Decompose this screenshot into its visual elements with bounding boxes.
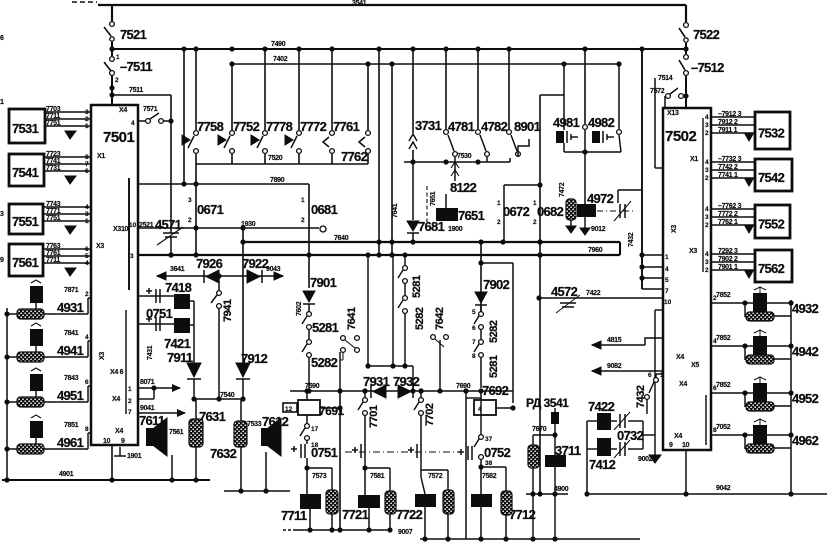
svg-text:7711: 7711 <box>281 508 307 523</box>
svg-text:7571: 7571 <box>143 106 158 113</box>
svg-text:6: 6 <box>0 35 4 42</box>
svg-text:4: 4 <box>705 251 709 258</box>
svg-text:0682: 0682 <box>537 204 564 219</box>
svg-text:7632: 7632 <box>210 446 237 461</box>
connector 12 box <box>283 403 297 412</box>
svg-text:7520: 7520 <box>268 155 283 162</box>
svg-text:7752: 7752 <box>233 119 260 134</box>
svg-text:7651: 7651 <box>458 208 485 223</box>
wire IC 7502 aux vertical <box>654 310 656 435</box>
box 7541 <box>9 154 44 186</box>
connector 0671 <box>195 164 197 255</box>
svg-text:37: 37 <box>485 436 493 443</box>
svg-text:5: 5 <box>85 253 89 260</box>
svg-text:4572: 4572 <box>551 284 578 299</box>
svg-text:0732: 0732 <box>617 428 644 443</box>
wire net 1930 <box>138 227 319 229</box>
wire 7511 down to IC 7501 <box>111 76 113 105</box>
wire dashed feedback <box>426 186 428 222</box>
svg-text:7741 1: 7741 1 <box>718 172 738 179</box>
svg-text:7532: 7532 <box>758 126 785 141</box>
ground 9002 <box>654 435 656 455</box>
box 7562 <box>755 250 792 282</box>
svg-text:7711: 7711 <box>46 257 60 264</box>
switch 7772 <box>298 49 300 130</box>
ground under capacitor 4972 <box>584 217 586 228</box>
diode 7926 <box>206 270 219 283</box>
svg-text:7841: 7841 <box>64 330 79 337</box>
wire bottom ground bus middle <box>420 538 640 540</box>
wire vertical x392 <box>391 64 393 255</box>
svg-text:7642: 7642 <box>434 307 446 330</box>
svg-text:7743: 7743 <box>46 201 61 208</box>
wire right ladder bus x791 <box>790 300 792 494</box>
svg-text:10: 10 <box>682 442 690 449</box>
wire node to 7571 branch <box>112 94 171 96</box>
svg-text:7901 1: 7901 1 <box>718 264 738 271</box>
svg-text:9012: 9012 <box>591 226 606 233</box>
wire dash-dot control line <box>345 451 462 453</box>
wire switch row bottom bus <box>196 163 368 165</box>
svg-text:7960: 7960 <box>588 247 603 254</box>
resistor-capacitor cell 4951 <box>7 401 88 403</box>
svg-text:7582: 7582 <box>482 473 497 480</box>
wire bottom bus right <box>585 493 827 495</box>
svg-text:7771: 7771 <box>46 208 61 215</box>
svg-text:7902: 7902 <box>483 277 510 292</box>
svg-text:7723: 7723 <box>46 151 61 158</box>
wire bus rail B y49 <box>111 48 686 50</box>
svg-text:7531: 7531 <box>12 121 39 136</box>
svg-text:0752: 0752 <box>484 445 511 460</box>
svg-text:7703: 7703 <box>46 106 61 113</box>
wire net 7930 <box>290 390 513 392</box>
svg-text:1: 1 <box>665 254 669 261</box>
wire right main vertical drop <box>685 5 687 22</box>
switch 7758 <box>195 49 197 130</box>
svg-text:7542: 7542 <box>758 170 785 185</box>
switch 0752 <box>465 391 467 539</box>
wire box top <box>481 262 513 264</box>
switch 7512 <box>684 55 689 60</box>
svg-text:7641: 7641 <box>392 203 399 218</box>
svg-text:7561: 7561 <box>169 429 184 436</box>
svg-text:2: 2 <box>497 219 501 226</box>
svg-text:4900: 4900 <box>554 486 569 493</box>
switch 5281 <box>479 340 484 345</box>
svg-text:10: 10 <box>129 222 137 229</box>
svg-text:5: 5 <box>472 309 476 316</box>
svg-text:3: 3 <box>0 211 4 218</box>
wire row to box 7552 <box>711 224 755 226</box>
node wedge below 7551 <box>65 226 76 234</box>
svg-text:4781: 4781 <box>448 119 475 134</box>
svg-text:4782: 4782 <box>481 119 508 134</box>
svg-text:7590: 7590 <box>305 383 320 390</box>
svg-text:4: 4 <box>85 334 89 341</box>
svg-text:7530: 7530 <box>457 153 472 160</box>
svg-text:9002: 9002 <box>638 456 653 463</box>
svg-text:7521: 7521 <box>120 27 147 42</box>
ground under resistor <box>570 220 572 226</box>
wire vertical x393 lower <box>392 255 394 366</box>
svg-text:7640: 7640 <box>334 235 349 242</box>
node diode mark 7552 <box>745 226 753 233</box>
wire row to box 7562 <box>711 269 755 271</box>
wire 7531 row 2 <box>45 118 91 120</box>
svg-text:7472: 7472 <box>559 182 566 197</box>
wire down to 4972 <box>584 152 586 204</box>
capacitor 0732 upper symbol <box>611 420 617 422</box>
node hook end of net 1930 <box>320 226 326 232</box>
svg-text:5281: 5281 <box>488 355 500 378</box>
svg-text:7422: 7422 <box>586 290 601 297</box>
wire 7418 block to diode 7911 <box>190 300 194 302</box>
svg-text:7901: 7901 <box>310 275 337 290</box>
svg-text:7926: 7926 <box>196 256 223 271</box>
svg-text:7602: 7602 <box>296 301 303 316</box>
wire arrow input 9082 <box>592 370 663 372</box>
wire stub rows to 7418 block <box>138 295 174 297</box>
svg-text:7741: 7741 <box>46 158 61 165</box>
wire row to box 7562 <box>711 261 755 263</box>
svg-text:7922: 7922 <box>242 256 269 271</box>
wire dash-dot to coupling <box>597 210 636 212</box>
svg-text:9082: 9082 <box>607 363 622 370</box>
resistor 4972 hatched <box>566 199 576 220</box>
switch 7511 <box>110 57 115 62</box>
capacitor 7412 <box>597 438 611 456</box>
svg-text:9: 9 <box>669 442 673 449</box>
svg-text:3: 3 <box>705 167 709 174</box>
connector 0672 frame <box>504 184 540 186</box>
capacitor coupling symbol <box>619 204 621 218</box>
svg-text:7501: 7501 <box>103 129 135 146</box>
svg-text:12: 12 <box>285 406 293 413</box>
resistor 7711 partner <box>307 467 332 469</box>
resistor-capacitor cell 4932 <box>711 302 791 304</box>
svg-text:7852: 7852 <box>716 292 731 299</box>
svg-text:X13: X13 <box>667 110 679 117</box>
svg-text:7852: 7852 <box>716 335 731 342</box>
switch 5282 left <box>307 340 312 345</box>
svg-text:3: 3 <box>188 197 192 204</box>
wire 3731 group bottom <box>404 161 510 163</box>
svg-text:2: 2 <box>705 175 709 182</box>
box 7532 <box>755 112 790 149</box>
svg-text:7490: 7490 <box>271 41 286 48</box>
IC 7501 <box>91 105 138 445</box>
svg-text:X310: X310 <box>113 226 129 233</box>
wire row to box 7562 <box>711 253 755 255</box>
svg-text:7412: 7412 <box>589 457 616 472</box>
svg-text:1: 1 <box>497 200 501 207</box>
svg-text:7712: 7712 <box>509 507 536 522</box>
wire net 4572 to IC 7502 <box>539 297 663 299</box>
svg-text:4: 4 <box>705 206 709 213</box>
svg-text:2: 2 <box>85 291 89 298</box>
svg-text:7912 2: 7912 2 <box>718 119 738 126</box>
svg-text:7701: 7701 <box>368 405 380 428</box>
svg-text:38: 38 <box>485 460 493 467</box>
switch 7761 <box>331 49 333 130</box>
svg-text:7651: 7651 <box>430 191 437 206</box>
wire vertical x340 <box>339 391 341 530</box>
svg-text:3: 3 <box>705 259 709 266</box>
wire vertical x171 <box>170 95 172 217</box>
svg-text:3: 3 <box>705 214 709 221</box>
connector 0681 <box>308 184 310 288</box>
wire 7531 row 3 <box>45 125 91 127</box>
node wedge below 7541 <box>65 176 76 184</box>
svg-text:4952: 4952 <box>792 391 819 406</box>
svg-text:1901: 1901 <box>127 453 142 460</box>
svg-text:X1: X1 <box>690 156 698 163</box>
svg-text:9: 9 <box>121 438 125 445</box>
wire 7541 row 2 <box>44 163 91 165</box>
node wedge below 7561 <box>65 268 76 276</box>
svg-text:7932: 7932 <box>393 374 420 389</box>
svg-text:X3: X3 <box>689 248 697 255</box>
wire bus rail C y64 <box>232 63 619 65</box>
wire link y366 <box>368 365 413 367</box>
wire 7561 row 2 <box>43 255 91 257</box>
svg-text:7702: 7702 <box>424 403 436 426</box>
switch 7522 <box>684 23 689 28</box>
svg-text:7561: 7561 <box>12 255 39 270</box>
wire 7551 row 1 <box>43 206 91 208</box>
svg-text:7911 1: 7911 1 <box>718 127 738 134</box>
svg-text:7540: 7540 <box>220 392 235 399</box>
switch 5281 right <box>404 255 406 266</box>
svg-text:1: 1 <box>128 386 132 393</box>
svg-text:7422: 7422 <box>588 399 615 414</box>
wire vertical x540 <box>539 95 541 494</box>
resistor-capacitor cell 4962 <box>711 434 791 436</box>
wire 3711 ground link <box>526 493 568 495</box>
svg-text:7522: 7522 <box>693 27 720 42</box>
svg-text:7761: 7761 <box>333 119 360 134</box>
wire long vertical x642 <box>641 49 643 289</box>
svg-text:7541: 7541 <box>12 165 39 180</box>
svg-text:4815: 4815 <box>607 337 622 344</box>
svg-text:7852: 7852 <box>716 382 731 389</box>
wire 3711 columns to bottom <box>532 494 534 539</box>
svg-text:7551: 7551 <box>12 214 39 229</box>
wire left ladder bus x7 <box>6 308 8 480</box>
resistor-capacitor cell 4941 <box>7 356 88 358</box>
svg-text:7: 7 <box>472 339 476 346</box>
wire IC 7502 bottom drop <box>685 450 687 494</box>
wire IC 7502 internal bracket <box>702 118 704 272</box>
capacitor 0752 <box>458 451 464 453</box>
svg-text:7751: 7751 <box>46 215 61 222</box>
wire net 7890 <box>138 183 309 185</box>
wire 4972 coupling elbow <box>618 189 641 191</box>
svg-text:X4: X4 <box>112 396 120 403</box>
svg-text:4: 4 <box>85 204 89 211</box>
wire row to box 7542 <box>711 161 755 163</box>
wire 7541 row 3 <box>44 170 91 172</box>
capacitor 7711 <box>300 494 321 509</box>
wire row to box 7552 <box>711 208 755 210</box>
resistor-capacitor cell 4961 <box>7 448 88 450</box>
box 7531 <box>9 109 45 143</box>
wire top supply rail <box>72 1 97 3</box>
svg-text:6: 6 <box>472 325 476 332</box>
node diode mark 7562 <box>745 271 753 278</box>
svg-text:7762 1: 7762 1 <box>718 219 738 226</box>
resistor 3541 partner <box>533 434 555 436</box>
svg-text:3: 3 <box>85 109 89 116</box>
svg-text:2: 2 <box>128 398 132 405</box>
svg-text:X3: X3 <box>96 243 104 250</box>
svg-text:0671: 0671 <box>197 202 224 217</box>
switch 5281 left <box>307 312 312 317</box>
svg-text:X3: X3 <box>99 352 106 360</box>
svg-text:РД 3541: РД 3541 <box>526 396 569 410</box>
svg-text:4: 4 <box>665 266 669 273</box>
coil 7632 <box>240 399 242 421</box>
wire 7561 row 3 <box>43 262 91 264</box>
svg-text:7670: 7670 <box>532 426 547 433</box>
capacitor 0751 second <box>352 449 358 451</box>
wire 4981/4982 bottom link <box>564 151 621 153</box>
svg-text:X4: X4 <box>115 428 123 435</box>
svg-text:10: 10 <box>103 438 111 445</box>
resistor-capacitor cell 4942 <box>711 345 791 347</box>
svg-text:1: 1 <box>0 99 4 106</box>
svg-text:–7912 3: –7912 3 <box>718 111 742 118</box>
svg-text:7: 7 <box>85 161 89 168</box>
capacitor 7651 <box>436 208 458 221</box>
switch 5282 right <box>403 296 408 301</box>
svg-text:2: 2 <box>115 77 119 84</box>
svg-text:17: 17 <box>311 426 319 433</box>
resistor-capacitor cell 4931 <box>7 313 88 315</box>
wire IC 7501 ground drop to bottom bus <box>111 445 113 480</box>
switch 7701 <box>364 391 366 398</box>
svg-text:0751: 0751 <box>146 306 173 321</box>
svg-text:4571: 4571 <box>155 217 182 232</box>
wire vertical x413 with coupling arrows <box>412 49 414 133</box>
wire row to box 7542 <box>711 177 755 179</box>
svg-text:7: 7 <box>128 409 132 416</box>
switch contact x619 <box>618 64 620 129</box>
svg-text:8901: 8901 <box>514 119 541 134</box>
svg-text:8: 8 <box>472 353 476 360</box>
node wedge below 7531 <box>65 131 76 139</box>
svg-text:X1: X1 <box>97 153 105 160</box>
svg-text:2: 2 <box>301 217 305 224</box>
svg-text:–7762 3: –7762 3 <box>718 203 742 210</box>
svg-text:7843: 7843 <box>64 375 79 382</box>
svg-text:4951: 4951 <box>57 388 84 403</box>
wire box right edge <box>512 263 514 403</box>
wire stubs from x642 to IC 7502 <box>642 254 663 256</box>
svg-text:7502: 7502 <box>665 128 697 145</box>
svg-text:4962: 4962 <box>792 433 819 448</box>
svg-text:7742 2: 7742 2 <box>718 164 738 171</box>
svg-text:–7732 3: –7732 3 <box>718 156 742 163</box>
svg-text:4: 4 <box>705 114 709 121</box>
wire row to box 7532 <box>711 132 755 134</box>
svg-text:7761: 7761 <box>46 250 61 257</box>
svg-text:–7512: –7512 <box>691 60 724 75</box>
capacitor 7721 <box>364 468 366 495</box>
svg-text:7533: 7533 <box>247 421 262 428</box>
svg-text:7871: 7871 <box>64 287 79 294</box>
wire IC 7501 internal connector bracket <box>128 178 130 290</box>
wire 7522 to node <box>685 43 687 54</box>
svg-text:7758: 7758 <box>197 119 224 134</box>
switch 7702 <box>420 391 422 398</box>
svg-text:8: 8 <box>85 154 89 161</box>
wire row to box 7532 <box>711 116 755 118</box>
svg-text:4961: 4961 <box>57 435 84 450</box>
resistor 7722 partner <box>421 469 448 471</box>
svg-text:7722: 7722 <box>396 507 423 522</box>
svg-text:4931: 4931 <box>57 300 84 315</box>
svg-text:7: 7 <box>665 288 669 295</box>
svg-text:7681: 7681 <box>418 219 445 234</box>
svg-text:8: 8 <box>85 426 89 433</box>
svg-text:3: 3 <box>85 211 89 218</box>
svg-text:7690: 7690 <box>456 383 471 390</box>
ground 1901 under IC 7501 <box>119 447 121 456</box>
switch 7571 <box>138 120 146 122</box>
svg-text:4: 4 <box>478 406 482 413</box>
wire elbow to bus A <box>242 228 244 242</box>
svg-text:7641: 7641 <box>346 307 358 330</box>
svg-text:9041: 9041 <box>140 405 155 412</box>
svg-text:8071: 8071 <box>140 379 155 386</box>
svg-text:X4: X4 <box>679 381 687 388</box>
svg-text:6: 6 <box>85 246 89 253</box>
switch 7762 <box>367 64 369 130</box>
diode 7681 <box>412 162 414 220</box>
svg-text:X4: X4 <box>676 354 684 361</box>
capacitor 4972 <box>577 204 596 217</box>
relay 7691 <box>298 400 320 415</box>
svg-text:5282: 5282 <box>414 307 426 330</box>
svg-text:4: 4 <box>705 159 709 166</box>
svg-text:10: 10 <box>664 299 672 306</box>
svg-text:7573: 7573 <box>312 473 327 480</box>
svg-text:1: 1 <box>85 218 89 225</box>
svg-text:6: 6 <box>85 379 89 386</box>
svg-text:7572: 7572 <box>650 88 665 95</box>
box 7561 <box>9 244 43 276</box>
svg-text:2: 2 <box>85 116 89 123</box>
wire 7521 to node <box>111 42 113 56</box>
svg-text:4942: 4942 <box>792 344 819 359</box>
svg-text:9043: 9043 <box>266 266 281 273</box>
svg-text:3: 3 <box>705 122 709 129</box>
svg-text:2: 2 <box>705 222 709 229</box>
diode 7922 <box>247 270 260 283</box>
svg-text:3: 3 <box>130 253 134 260</box>
wire 8122 to 7651 <box>445 194 447 208</box>
svg-text:0681: 0681 <box>311 202 338 217</box>
capacitor 7712 <box>471 494 492 507</box>
capacitor symbol lower <box>146 318 152 320</box>
wire ground link left bottom <box>283 529 291 531</box>
svg-text:7562: 7562 <box>758 261 785 276</box>
svg-text:1: 1 <box>301 197 305 204</box>
wire vertical x379 <box>378 49 380 255</box>
svg-text:7421: 7421 <box>164 336 191 351</box>
